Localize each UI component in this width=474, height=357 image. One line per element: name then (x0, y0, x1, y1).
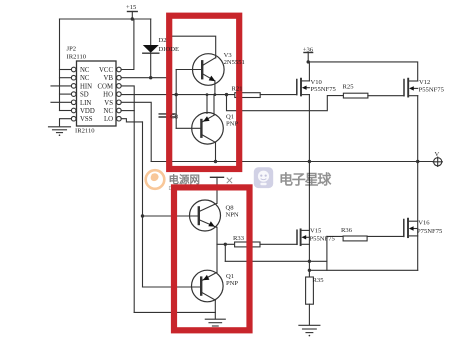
highlight box upper totem pair (169, 16, 239, 169)
wire COM pin down left column (121, 86, 134, 313)
svg-text:V3: V3 (224, 52, 233, 59)
svg-text:VCC: VCC (99, 67, 113, 74)
svg-text:IR2110: IR2110 (75, 128, 95, 135)
transistor V3 NPN (176, 54, 224, 95)
wire output node line (151, 161, 433, 163)
transistor Q1 PNP lower (143, 270, 224, 319)
pin circles right (117, 67, 122, 121)
svg-text:R33: R33 (233, 235, 245, 242)
watermark dianyuan logo (146, 170, 165, 189)
svg-text:R25: R25 (343, 84, 355, 91)
wire SD stub (60, 93, 72, 95)
wire VB pin to bootstrap node (121, 77, 167, 79)
svg-text:HO: HO (103, 92, 113, 99)
diode D2 (143, 19, 159, 78)
wire VCC pin to +15 (121, 19, 134, 70)
svg-text:LO: LO (104, 116, 113, 123)
svg-text:COM: COM (98, 83, 114, 90)
wire emitter node drop to rail (224, 244, 226, 261)
svg-text:NC: NC (104, 108, 114, 115)
junction node-V12 column (416, 160, 419, 163)
svg-text:V: V (435, 151, 440, 158)
svg-text:电子星球: 电子星球 (279, 171, 332, 187)
wire V3 collector to VB node (167, 36, 216, 58)
pin circles left (71, 67, 76, 121)
resistor R33 (235, 242, 260, 247)
svg-text:C8: C8 (170, 114, 178, 121)
ground below IC (49, 127, 71, 136)
junction Q1 emitter on drive line (206, 93, 209, 96)
ground below R35 (299, 325, 320, 336)
ground inside lower red box (205, 319, 225, 326)
svg-text:R35: R35 (313, 277, 325, 284)
wire second rail to V16 source (309, 269, 417, 271)
junction V3 emitter on drive line (214, 93, 217, 96)
junction R35 top (308, 269, 311, 272)
wire LIN input (51, 101, 71, 103)
wire R35 bottom to ground (308, 304, 310, 325)
junction base-HO (175, 93, 178, 96)
wire LO column down to bases (142, 122, 144, 287)
wire R36 to V16 gate (367, 235, 404, 237)
svg-text:PNP: PNP (226, 280, 238, 287)
resistor R21 (235, 93, 260, 98)
wire VSS to ground (60, 119, 72, 126)
wire emitter column to Q1 lower (216, 244, 218, 272)
junction node-Q1 collector (214, 160, 217, 163)
wire base column upper pair (175, 70, 177, 129)
wire LO pin jog (121, 119, 142, 122)
svg-text:V15: V15 (310, 228, 322, 235)
transistor Q1 PNP upper (176, 95, 223, 162)
wire V12 source column down through V16 (417, 96, 419, 271)
svg-text:VB: VB (104, 75, 114, 82)
svg-text:电源网: 电源网 (169, 173, 201, 186)
wire VDD stub (60, 110, 72, 112)
svg-text:2N5551: 2N5551 (224, 59, 245, 66)
junction LO column Q8 base (141, 214, 144, 217)
wire emitter node to R33 (217, 243, 235, 245)
junction emitter node (224, 243, 227, 246)
wire R33 to V15 gate (260, 243, 297, 245)
op-amp U1 IC body IR2110 JP2 (77, 61, 117, 126)
wire low side rail (225, 260, 327, 262)
transistor V10 MOSFET (297, 79, 310, 96)
transistor Q8 NPN (143, 200, 221, 244)
svg-text:NC: NC (80, 75, 90, 82)
svg-text:NPN: NPN (226, 212, 239, 219)
wire drive node to R25 (227, 95, 344, 111)
svg-text:SD: SD (80, 92, 89, 99)
wire R36 drop (326, 236, 328, 270)
junction rail V15 source (308, 260, 311, 263)
wire R21 to V10 gate (260, 94, 297, 96)
wire NC pin stub (121, 110, 134, 112)
svg-text:R21: R21 (232, 86, 243, 93)
svg-text:P55NF75: P55NF75 (419, 87, 445, 94)
wire VS pin down to output node line (121, 102, 151, 161)
junction +36 rail (307, 60, 310, 63)
wire V10 drain up (308, 62, 310, 81)
wire HO pin to R21 (121, 94, 235, 96)
wire lower rail to ground column (134, 311, 215, 313)
svg-text:VSS: VSS (80, 116, 93, 123)
svg-text:HIN: HIN (80, 83, 92, 90)
svg-text:IR2110: IR2110 (67, 54, 87, 61)
wire +15 to left bus (60, 18, 151, 20)
svg-text:Q1: Q1 (226, 114, 234, 121)
junction drive node tap (225, 93, 228, 96)
svg-text:PNP: PNP (226, 121, 238, 128)
wire NC1 stub (60, 69, 72, 71)
svg-text:Q1: Q1 (226, 273, 234, 280)
svg-text:V12: V12 (419, 79, 430, 86)
svg-text:D2: D2 (159, 37, 167, 44)
svg-text:DIODE: DIODE (159, 46, 180, 53)
supply bar above Q8 (211, 177, 224, 203)
svg-text:LIN: LIN (80, 100, 91, 107)
watermark ezbuy logo (254, 167, 273, 188)
junction +15 node (131, 17, 134, 20)
capacitor C8 (159, 114, 175, 117)
IC pin names (80, 67, 113, 123)
wire NC2 stub (60, 77, 72, 79)
resistor R35 (306, 277, 314, 304)
wire left bus (59, 19, 61, 111)
svg-text:P75NF75: P75NF75 (417, 228, 443, 235)
transistor V16 MOSFET (404, 219, 418, 237)
svg-text:NC: NC (80, 67, 90, 74)
wire Q1 upper emitter drop (206, 95, 208, 114)
svg-text:VDD: VDD (80, 108, 95, 115)
wire R36 left (327, 235, 343, 237)
wire V10 source column down through V15 to R35 (308, 95, 310, 277)
svg-text:V16: V16 (418, 219, 430, 226)
power +36 (304, 53, 313, 62)
wire bootstrap column under red border (166, 36, 168, 113)
svg-text:R36: R36 (341, 227, 353, 234)
wire C8 bottom to node line (166, 118, 168, 162)
svg-text:JP2: JP2 (67, 46, 77, 53)
transistor V15 MOSFET (297, 229, 309, 245)
power +15 (128, 12, 138, 20)
junction VB-diode (149, 76, 152, 79)
svg-text:Q8: Q8 (226, 205, 235, 212)
svg-text:V10: V10 (311, 79, 323, 86)
wire +36 rail to V12 drain (308, 62, 418, 81)
transistor V12 MOSFET (404, 79, 418, 97)
resistor R36 (343, 236, 367, 241)
resistor R25 (343, 93, 368, 98)
svg-text:VS: VS (104, 100, 113, 107)
node V output terminal (433, 157, 442, 166)
wire HIN input (51, 85, 71, 87)
wire R25 to V12 gate (368, 95, 404, 97)
svg-text:+15: +15 (126, 4, 137, 11)
svg-text:P55NF75: P55NF75 (311, 86, 337, 93)
svg-text:P55NF75: P55NF75 (310, 236, 336, 243)
svg-text:+36: +36 (303, 46, 314, 53)
highlight box lower totem pair (174, 187, 250, 330)
junction node-V10 column (308, 160, 311, 163)
